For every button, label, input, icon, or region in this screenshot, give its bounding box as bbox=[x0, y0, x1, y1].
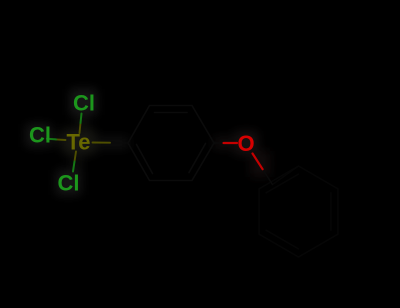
svg-text:Cl: Cl bbox=[73, 91, 95, 116]
svg-text:Cl: Cl bbox=[58, 171, 80, 196]
svg-text:Cl: Cl bbox=[29, 123, 51, 148]
svg-text:Te: Te bbox=[67, 130, 91, 155]
svg-text:O: O bbox=[238, 131, 255, 156]
